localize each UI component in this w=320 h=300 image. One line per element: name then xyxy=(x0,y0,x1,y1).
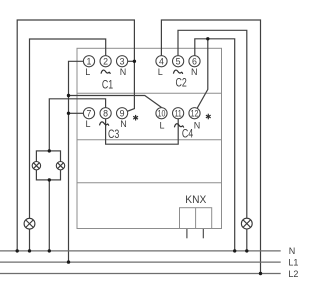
wire: terminal 5 output loop right down through lamp E4 to N bus xyxy=(178,30,247,251)
junction node A (terminal 3 / N loop) xyxy=(133,60,136,63)
svg-text:4: 4 xyxy=(159,57,164,67)
device section divider middle/KNX band xyxy=(77,182,222,184)
AC symbol terminal 5 xyxy=(173,70,182,74)
wire: branch from N loop down to terminal 12 xyxy=(197,39,208,108)
device outline box xyxy=(77,48,222,228)
wire: branch from L1 riser across to terminal 10 xyxy=(69,96,162,108)
svg-text:12: 12 xyxy=(191,109,199,119)
svg-text:11: 11 xyxy=(175,109,182,119)
KNX bus stub 2 xyxy=(202,229,204,239)
bus L1 xyxy=(0,261,281,263)
lamp E4 xyxy=(241,218,252,229)
svg-text:L: L xyxy=(85,67,90,77)
junction on N bus at lamp E1 wire xyxy=(28,249,31,252)
svg-text:N: N xyxy=(289,246,296,256)
lamp E3 xyxy=(56,162,64,170)
junction on N bus at parallel lamp wire xyxy=(48,249,51,252)
junction on N bus at outer loop xyxy=(16,249,19,252)
device section divider row2/middle xyxy=(77,139,222,141)
asterisk channel C3 xyxy=(133,115,138,121)
svg-text:N: N xyxy=(120,119,127,129)
svg-text:2: 2 xyxy=(103,57,108,67)
AC symbol terminal 11 xyxy=(174,124,183,128)
svg-text:N: N xyxy=(120,67,127,77)
svg-text:1: 1 xyxy=(87,57,92,67)
junction on N bus at lamp E4 wire xyxy=(245,249,248,252)
terminal 2 xyxy=(100,56,111,67)
terminal 11 xyxy=(173,108,184,119)
svg-text:3: 3 xyxy=(120,57,125,67)
AC symbol terminal 2 xyxy=(101,70,110,74)
svg-text:C3: C3 xyxy=(108,129,119,141)
svg-text:L1: L1 xyxy=(288,258,298,268)
AC symbol terminal 8 xyxy=(100,122,109,126)
junction node C (L1 riser / branch to terminal 10) xyxy=(67,94,70,97)
wire: from lamp bracket down to N bus xyxy=(48,180,50,251)
svg-text:10: 10 xyxy=(158,109,166,119)
wire: parallel lamp bracket xyxy=(36,151,60,180)
junction node E (lamp bracket top) xyxy=(48,149,51,152)
junction on L1 bus xyxy=(67,260,70,263)
svg-text:L: L xyxy=(85,119,90,129)
svg-text:C4: C4 xyxy=(182,128,194,140)
junction node B (N loop / terminal 12 branch) xyxy=(206,37,209,40)
wire: terminal 6 loop right down to N bus xyxy=(195,39,235,251)
wire: stub terminal 3 to node A xyxy=(128,60,135,62)
svg-text:9: 9 xyxy=(120,109,125,119)
svg-text:N: N xyxy=(194,120,201,130)
bus N xyxy=(0,250,281,252)
svg-text:L2: L2 xyxy=(288,269,298,279)
junction node D (L1 riser / terminal 7 stub) xyxy=(67,112,70,115)
svg-text:C2: C2 xyxy=(175,78,186,90)
terminal 6 xyxy=(189,56,200,67)
svg-text:L: L xyxy=(158,67,163,77)
junction on N bus at terminal 6 wire xyxy=(233,249,236,252)
svg-text:KNX: KNX xyxy=(185,194,206,206)
KNX bus stub 1 xyxy=(186,229,188,239)
wire: terminal 4 loop over top right down to L2 bus xyxy=(161,20,260,274)
terminal 8 xyxy=(100,108,111,119)
asterisk channel C4 xyxy=(206,114,211,120)
svg-text:6: 6 xyxy=(192,57,197,67)
svg-text:C1: C1 xyxy=(102,79,113,91)
svg-text:5: 5 xyxy=(176,57,181,67)
wire: N loop from N bus left up over top to terminal 3 and down to terminal 9 xyxy=(17,20,134,251)
terminal 1 xyxy=(83,56,94,67)
KNX connector block xyxy=(180,208,212,229)
terminal 9 xyxy=(117,108,128,119)
terminal 10 xyxy=(156,108,167,119)
svg-text:7: 7 xyxy=(87,109,92,119)
terminal 3 xyxy=(117,56,128,67)
lamp E2 xyxy=(32,162,40,170)
terminal 4 xyxy=(156,56,167,67)
wire: tie between terminal 8 and terminal 11 xyxy=(106,119,179,145)
terminal 5 xyxy=(173,56,184,67)
svg-text:8: 8 xyxy=(103,109,108,119)
svg-text:L: L xyxy=(159,120,164,130)
wire: L1 bus up to terminal 1 stub xyxy=(69,61,84,262)
junction node F (lamp bracket bottom) xyxy=(48,178,51,181)
wire: terminal 2 output loop left side down through lamp E1 to N bus xyxy=(30,39,106,251)
wire: stub to terminal 7 xyxy=(69,112,84,114)
svg-text:N: N xyxy=(191,67,198,77)
wire: terminal 8 output up and left then down to parallel lamps xyxy=(49,99,105,151)
device section divider row1/row2 xyxy=(77,92,222,94)
terminal 7 xyxy=(83,108,94,119)
bus L2 xyxy=(0,273,281,275)
terminal 12 xyxy=(189,108,200,119)
lamp E1 xyxy=(24,218,35,229)
junction on L2 bus xyxy=(259,272,262,275)
